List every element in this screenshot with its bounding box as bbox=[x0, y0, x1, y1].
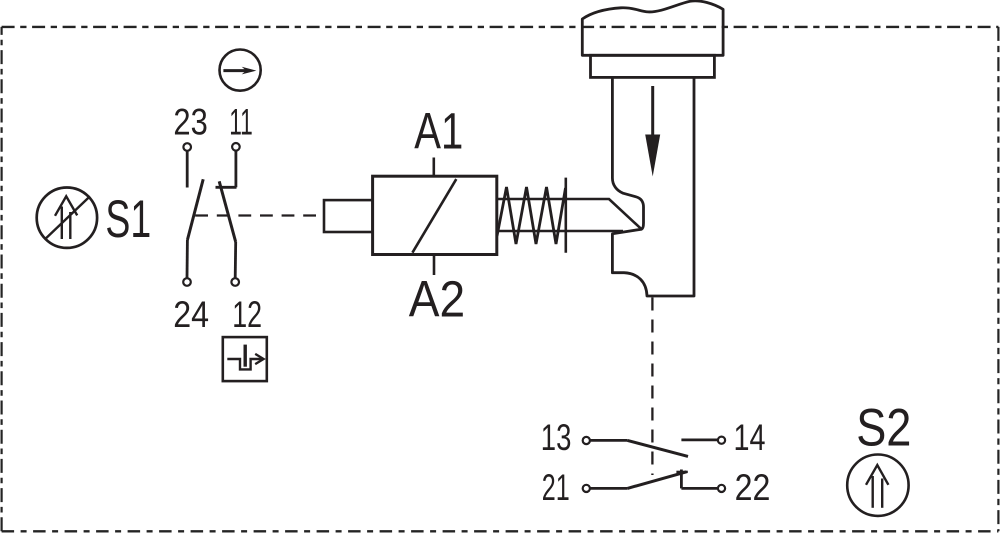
contact blade 13-14 bbox=[627, 440, 688, 456]
actuator head (wavy broken-off top) bbox=[582, 1, 723, 55]
plunger rod bottom line bbox=[497, 230, 623, 233]
solenoid diagonal bbox=[412, 179, 456, 253]
contact blade 23-24 bbox=[187, 179, 203, 240]
spring end bar bbox=[564, 178, 567, 253]
contact blade 21-22 bbox=[627, 472, 686, 489]
actuator neck bbox=[591, 55, 715, 77]
return spring bbox=[497, 187, 566, 244]
svg-text:23: 23 bbox=[173, 102, 207, 143]
svg-text:14: 14 bbox=[734, 417, 766, 458]
pulse waveform bbox=[227, 359, 262, 369]
svg-text:13: 13 bbox=[541, 417, 572, 458]
actuation arrow (down) bbox=[651, 86, 654, 137]
solenoid coil box bbox=[373, 176, 497, 254]
svg-text:12: 12 bbox=[232, 294, 262, 335]
contact blade 11-12 bbox=[219, 181, 236, 242]
wire stem 11 bbox=[234, 151, 237, 187]
terminal 12 bbox=[231, 278, 239, 286]
svg-text:11: 11 bbox=[229, 102, 253, 143]
wire 14 bbox=[681, 438, 717, 441]
svg-text:S1: S1 bbox=[105, 190, 151, 249]
mechanical link (dashed) contacts to armature bbox=[195, 214, 324, 216]
svg-text:21: 21 bbox=[542, 467, 570, 508]
S1 symbol circle (crossed actuation arrow) bbox=[37, 188, 97, 248]
wire 13 bbox=[591, 439, 628, 442]
wire stem 12 bbox=[234, 242, 237, 278]
plunger rod top line bbox=[497, 199, 642, 229]
mechanical link (dashed) body to S2 contacts bbox=[651, 298, 653, 476]
svg-text:A2: A2 bbox=[409, 270, 465, 327]
NC seat 21-22 vertical bbox=[680, 470, 683, 489]
pulse symbol box bbox=[223, 337, 267, 381]
cam actuation symbol (circle with right arrow) bbox=[220, 50, 261, 91]
S2 symbol circle (actuation arrow) bbox=[847, 455, 908, 516]
terminal 14 bbox=[718, 437, 725, 444]
terminal 11 bbox=[232, 143, 240, 151]
terminal 23 bbox=[183, 143, 191, 151]
svg-text:24: 24 bbox=[173, 294, 209, 335]
NC seat tick bbox=[676, 471, 687, 473]
NC seat 11 bbox=[216, 186, 237, 189]
wire 22 bbox=[681, 487, 717, 490]
armature / plunger block bbox=[324, 200, 373, 232]
terminal 21 bbox=[583, 485, 590, 492]
svg-text:S2: S2 bbox=[856, 398, 911, 457]
terminal lead A1 bbox=[432, 158, 435, 177]
svg-text:22: 22 bbox=[735, 467, 771, 508]
switch body bbox=[612, 77, 694, 296]
pulse actuator bar bbox=[244, 345, 247, 367]
wire stem 23 bbox=[186, 152, 189, 188]
terminal 22 bbox=[718, 485, 725, 492]
wire stem 24 bbox=[186, 240, 189, 278]
terminal 24 bbox=[183, 278, 191, 286]
terminal lead A2 bbox=[433, 255, 436, 276]
svg-text:A1: A1 bbox=[414, 102, 463, 159]
terminal 13 bbox=[583, 437, 590, 444]
wire 21 bbox=[591, 487, 628, 490]
